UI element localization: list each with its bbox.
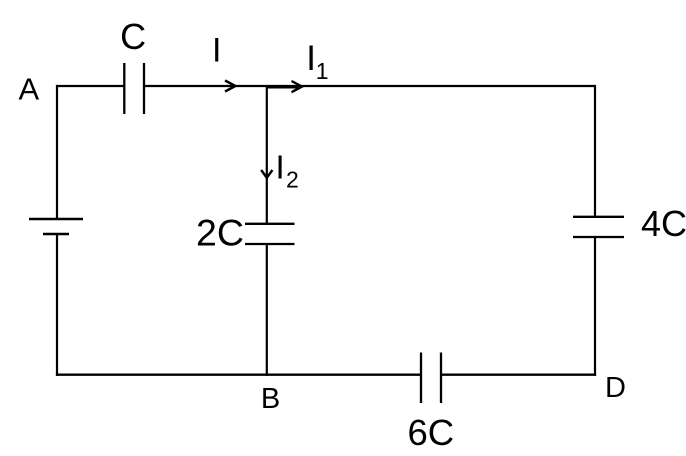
wire right vertical lower: capacitor 4C down to node D — [594, 238, 596, 376]
svg-text:2: 2 — [286, 167, 299, 193]
battery cell (long positive plate) — [29, 218, 83, 221]
capacitor 4C plates — [573, 217, 624, 237]
wire top-left: node A corner to capacitor C left plate — [57, 85, 124, 87]
svg-text:C: C — [120, 16, 146, 57]
wire left vertical lower: battery down to bottom-left corner — [56, 235, 58, 376]
svg-text:2C: 2C — [196, 211, 244, 253]
current label I1 — [306, 39, 328, 84]
current arrow I (arrowhead on top wire) — [225, 81, 236, 92]
svg-text:D: D — [605, 372, 626, 404]
svg-text:6C: 6C — [408, 412, 455, 453]
svg-text:A: A — [19, 72, 40, 107]
current arrow I1 (line and arrowhead right of junction) — [267, 81, 302, 92]
battery cell (short negative plate) — [43, 233, 69, 236]
svg-text:B: B — [261, 383, 280, 415]
wire left vertical upper: A corner down to battery — [56, 85, 58, 218]
wire middle vertical lower: capacitor 2C down to node B — [266, 245, 268, 376]
wire bottom right: capacitor 6C right plate to bottom-right corner (node D) — [441, 374, 596, 376]
capacitor C plates — [124, 63, 144, 114]
capacitor 2C plates — [245, 224, 295, 244]
current label I2 — [276, 149, 299, 193]
svg-text:4C: 4C — [641, 203, 686, 244]
wire right vertical upper: top-right corner down to capacitor 4C — [594, 85, 596, 216]
wire top: capacitor C right plate to top-right corner — [144, 85, 595, 87]
svg-text:1: 1 — [316, 58, 329, 84]
current arrow I2 (arrowhead on middle vertical wire) — [261, 170, 272, 178]
capacitor 6C plates — [421, 353, 441, 404]
svg-text:I: I — [306, 39, 316, 78]
svg-text:I: I — [276, 149, 285, 186]
wire middle vertical upper: junction on top wire down to capacitor 2C — [266, 85, 268, 223]
svg-text:I: I — [212, 32, 221, 70]
wire bottom left: bottom-left corner through node B to capacitor 6C left plate — [56, 374, 421, 376]
